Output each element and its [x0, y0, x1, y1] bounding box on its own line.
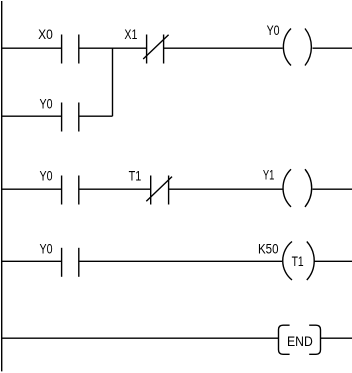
rung 1 wire segment (coil to right edge) — [313, 47, 352, 49]
svg-text:END: END — [287, 333, 313, 349]
END instruction box — [279, 325, 321, 354]
svg-text:X1: X1 — [124, 26, 137, 42]
rung 1 wire segment (X1 to coil) — [164, 47, 283, 49]
rung 4 wire segment (END box to right edge) — [321, 337, 352, 339]
svg-text:Y0: Y0 — [267, 22, 280, 38]
svg-text:T1: T1 — [292, 253, 304, 269]
svg-text:Y0: Y0 — [40, 95, 53, 111]
contact T1 (NC) — [146, 176, 172, 205]
rung 1 wire segment (X0 to X1) — [79, 47, 147, 49]
rung 2 wire segment (rail to Y0) — [1, 188, 62, 190]
svg-text:T1: T1 — [129, 167, 142, 183]
parallel branch wire segment (rail to Y0) — [1, 115, 62, 117]
left power rail — [1, 1, 3, 371]
svg-text:K50: K50 — [258, 241, 279, 257]
svg-text:X0: X0 — [38, 26, 53, 42]
coil Y0 — [283, 29, 311, 66]
contact Y0 (rung 3, NO) — [62, 248, 79, 277]
svg-text:Y0: Y0 — [40, 240, 53, 256]
timer coil T1 — [283, 242, 314, 281]
contact X0 (NO) — [62, 35, 79, 64]
contact X1 (NC) — [143, 35, 168, 64]
contact Y0 (rung 2, NO) — [62, 176, 79, 205]
rung 2 wire segment (coil to right edge) — [313, 188, 352, 190]
coil Y1 — [283, 169, 312, 207]
rung 3 wire segment (coil to right edge) — [314, 260, 352, 262]
svg-text:Y1: Y1 — [263, 167, 275, 183]
rung 1 wire segment (rail to X0) — [1, 47, 62, 49]
svg-text:Y0: Y0 — [40, 167, 53, 183]
rung 4 wire segment (rail to END box) — [1, 337, 279, 339]
contact Y0 (branch, NO) — [62, 103, 79, 132]
rung 2 wire segment (Y0 to T1) — [79, 188, 151, 190]
branch junction wire (vertical) — [112, 48, 114, 116]
rung 3 wire segment (rail to Y0) — [1, 260, 62, 262]
parallel branch wire segment (Y0 to junction) — [79, 115, 113, 117]
rung 2 wire segment (T1 to coil) — [169, 188, 283, 190]
rung 3 wire segment (Y0 to timer coil) — [79, 260, 282, 262]
